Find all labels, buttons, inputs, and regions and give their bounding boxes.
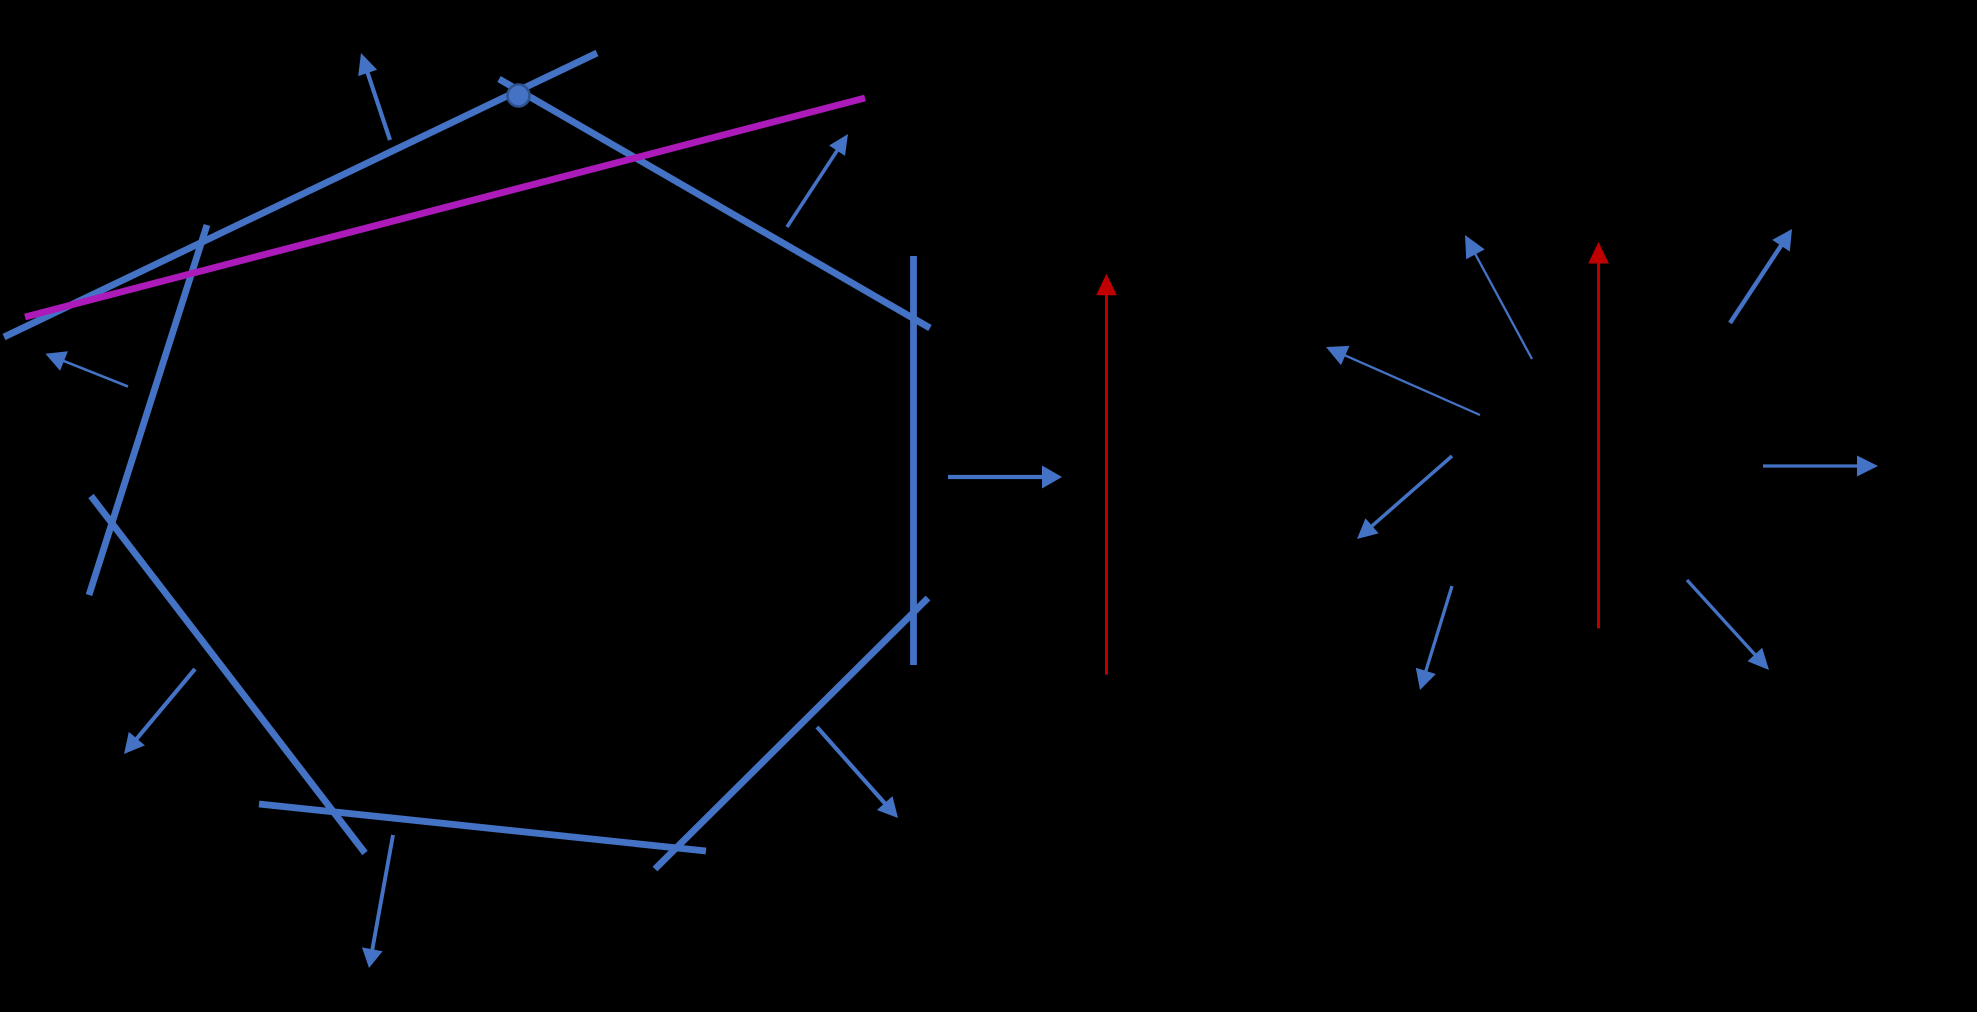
normal arrow edge A [358, 53, 390, 140]
polygon edge D (bottom-right diagonal) [655, 598, 928, 869]
cluster arrow left [1326, 346, 1480, 415]
red resultant arrow left [1096, 274, 1117, 675]
cluster arrow down [1416, 586, 1452, 690]
polygon edge A (top-left) [4, 53, 597, 337]
vertex dot [508, 85, 530, 107]
normal arrow edge F [124, 669, 195, 754]
cluster arrow up-left [1465, 235, 1532, 359]
normal arrow edge B [787, 134, 848, 227]
polygon edge E (bottom) [259, 804, 706, 851]
normal arrow edge C (horizontal) [948, 466, 1062, 489]
normal arrow edge D [817, 727, 898, 818]
polygon edge G (left) [89, 225, 207, 595]
magenta tangent line [25, 98, 865, 317]
polygon edge C (right vertical) [910, 256, 917, 665]
polygon edge B (top-right) [499, 79, 930, 328]
red resultant arrow right (cluster) [1588, 242, 1609, 629]
cluster arrow down-right [1687, 580, 1769, 670]
normal arrow edge G [45, 351, 128, 386]
cluster arrow down-left [1357, 456, 1452, 539]
cluster arrow up-right [1730, 229, 1792, 323]
polygon edge F (bottom-left diagonal) [91, 496, 365, 853]
normal arrow edge E [362, 835, 393, 968]
cluster arrow right [1763, 456, 1878, 477]
